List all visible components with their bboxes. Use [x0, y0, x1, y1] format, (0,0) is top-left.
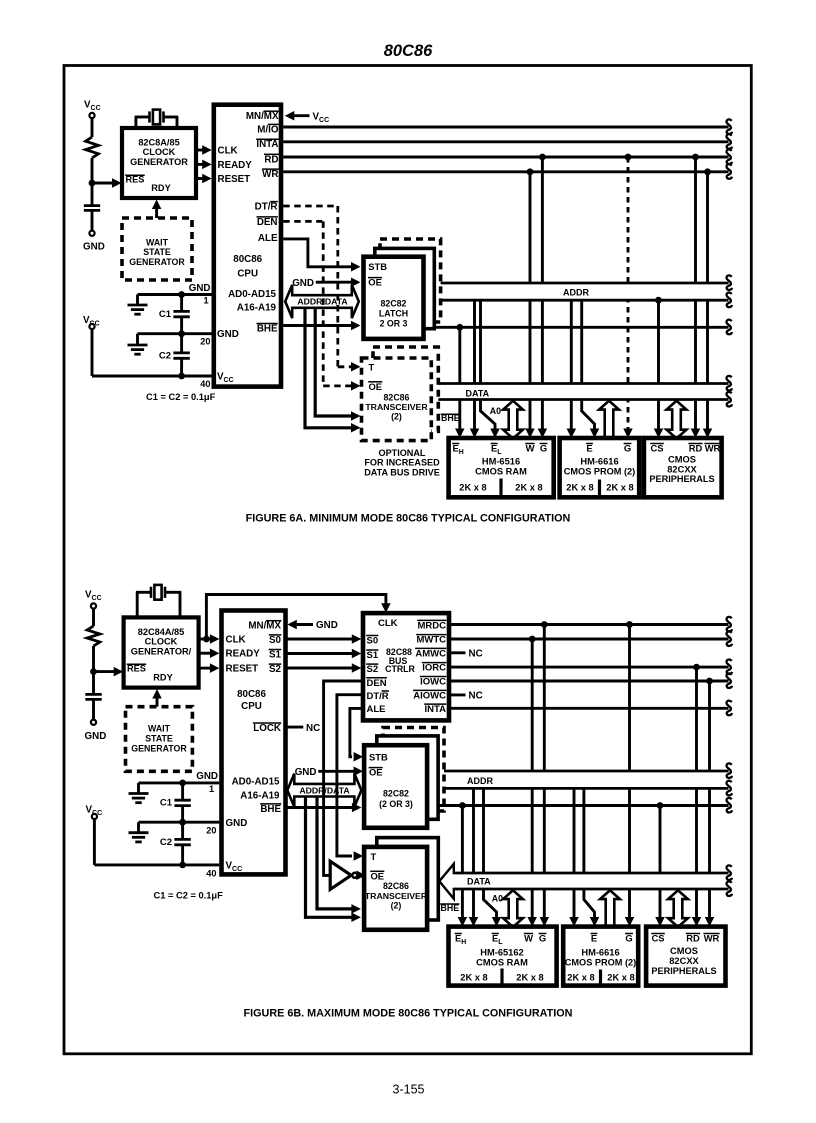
Vcc terminal 6B	[91, 603, 96, 608]
junction dot BHE drop 6B	[459, 802, 466, 809]
svg-text:STB: STB	[369, 752, 388, 763]
squiggle IORC 6B	[726, 659, 732, 674]
svg-text:DATA: DATA	[467, 876, 491, 886]
capacitor on RES rail 6A	[84, 204, 100, 207]
svg-text:80C86: 80C86	[233, 254, 262, 265]
transceiver front dashed box 6A	[362, 358, 432, 441]
latch 82C82 front box 6A	[364, 257, 424, 339]
svg-text:S1: S1	[367, 650, 379, 661]
overline for LOCK	[253, 722, 281, 724]
svg-text:LOCK: LOCK	[253, 723, 281, 734]
arrowhead A0 into RAM 6B	[492, 917, 502, 927]
wire rail C1-C2 6A	[180, 295, 183, 312]
svg-text:3-155: 3-155	[393, 1083, 425, 1097]
svg-text:GND: GND	[295, 767, 317, 778]
overline for RD	[264, 153, 279, 155]
wire A0 drop 6A	[481, 300, 496, 430]
junction dot G tap 6B	[541, 621, 548, 628]
svg-text:CMOS RAM: CMOS RAM	[476, 958, 528, 968]
junction dot pin40 rail 6B	[179, 862, 186, 869]
svg-text:ALE: ALE	[367, 704, 386, 715]
svg-text:CLK: CLK	[378, 618, 398, 629]
squiggle DATA top 6A	[726, 376, 732, 391]
svg-text:S2: S2	[269, 664, 282, 675]
arrowhead EL into RAM 6A	[470, 429, 480, 439]
svg-text:TRANSCEIVER: TRANSCEIVER	[365, 891, 428, 901]
overline for S1	[269, 649, 282, 651]
wire AD tap2 6B	[317, 797, 353, 909]
junction dot CLK branch 6B	[203, 636, 210, 643]
cpu 80C86 box 6A	[214, 105, 281, 387]
svg-text:20: 20	[200, 337, 210, 347]
svg-text:IORC: IORC	[422, 663, 446, 674]
squiggle DATA bottom 6A	[726, 392, 732, 407]
overline for G	[625, 933, 633, 935]
svg-text:FIGURE 6A. MINIMUM MODE 80C86: FIGURE 6A. MINIMUM MODE 80C86 TYPICAL CO…	[246, 513, 571, 525]
overline for MRDC	[417, 619, 446, 621]
overline for RD	[688, 443, 702, 445]
arrowhead AD tap1 6B	[351, 913, 361, 923]
bus arrow peripheral data 6A	[667, 401, 687, 439]
svg-text:82C86: 82C86	[383, 881, 409, 891]
svg-text:ADDR: ADDR	[467, 776, 493, 786]
svg-text:S1: S1	[269, 650, 282, 661]
arrowhead MN/MX 6B	[287, 620, 297, 630]
overline for OE	[369, 767, 383, 769]
svg-text:ALE: ALE	[258, 233, 278, 244]
svg-text:82C8A/85: 82C8A/85	[138, 138, 179, 148]
wire PROM G drop 6B	[628, 625, 631, 920]
svg-text:A16-A19: A16-A19	[240, 791, 280, 802]
wire pin20 6B	[183, 821, 220, 824]
bus band ADDR 6B	[444, 772, 729, 787]
squiggle MRDC 6B	[726, 617, 732, 632]
svg-text:TRANSCEIVER: TRANSCEIVER	[365, 402, 428, 412]
arrowhead AD tap2 6B	[351, 904, 361, 914]
overline for EL	[491, 443, 498, 445]
junction dot W tap 6B	[529, 636, 536, 643]
arrowhead periph WR 6B	[705, 917, 715, 927]
svg-text:DATA: DATA	[466, 388, 490, 398]
wire AIOWC NC 6B	[449, 693, 466, 696]
svg-text:40: 40	[200, 379, 210, 389]
arrowhead CLK 6B	[210, 634, 220, 644]
svg-text:C2: C2	[159, 350, 171, 361]
wire Vcc to resistor 6A	[91, 118, 94, 137]
svg-text:HM-6516: HM-6516	[482, 457, 520, 467]
svg-text:82C82: 82C82	[383, 788, 409, 798]
svg-text:NC: NC	[306, 723, 320, 734]
wire wait-state to clock 6A	[155, 207, 158, 218]
arrowhead PROM E 6B	[569, 917, 579, 927]
inverter bubble 6B	[352, 873, 357, 878]
junction dot periph RD tap 6A	[692, 154, 699, 161]
svg-text:2K x 8: 2K x 8	[515, 482, 542, 492]
junction dot pin40 rail 6A	[178, 373, 185, 380]
arrowhead into STB 6B	[354, 752, 364, 762]
wire ALE to STB 6A	[283, 239, 352, 267]
wire PROM A drop 6A	[582, 300, 595, 430]
overline for WR	[703, 933, 719, 935]
wire PROM A drop 6B	[584, 788, 595, 919]
wire G drop 6B	[543, 625, 546, 920]
GND terminal 6B	[91, 720, 96, 725]
Vcc terminal mid-left 6B	[92, 814, 97, 819]
svg-text:STB: STB	[368, 261, 387, 272]
svg-text:82C82: 82C82	[381, 298, 407, 308]
latch front box 6B	[364, 745, 427, 828]
arrowhead W into RAM 6A	[525, 429, 535, 439]
svg-text:CLOCK: CLOCK	[145, 637, 178, 647]
wire LOCK NC 6B	[286, 726, 304, 729]
svg-text:2K x 8: 2K x 8	[459, 482, 486, 492]
arrowhead into T 6A	[351, 362, 361, 372]
outer border frame	[64, 66, 751, 1054]
RAM HM-65162 box 6B	[449, 927, 557, 986]
wire MN/MX to GND 6B	[292, 623, 313, 626]
bus band ADDR 6A	[441, 284, 729, 299]
wire BHE to latch 6A	[283, 324, 352, 327]
svg-text:80C86: 80C86	[384, 42, 433, 60]
svg-text:C1: C1	[159, 309, 172, 320]
svg-text:READY: READY	[218, 160, 253, 171]
overline for RD	[686, 933, 700, 935]
overline for OE	[370, 870, 384, 872]
wait state generator box 6A	[122, 218, 192, 280]
overline for EL	[492, 933, 499, 935]
svg-text:ADDR: ADDR	[563, 288, 589, 298]
wire rail C2-pin40 6A	[180, 334, 183, 353]
arrowhead S0 6B	[352, 634, 362, 644]
wire to RES pin 6A	[92, 182, 115, 185]
svg-text:CPU: CPU	[241, 701, 262, 712]
svg-text:IOWC: IOWC	[420, 677, 446, 688]
svg-text:RESET: RESET	[218, 174, 251, 185]
arrowhead EL into RAM 6B	[469, 917, 479, 927]
arrowhead PROM A 6B	[590, 917, 600, 927]
wire CLK up and over to bus controller 6B	[206, 595, 386, 640]
wire resistor to cap 6B	[92, 646, 95, 694]
svg-text:MN/MX: MN/MX	[248, 621, 281, 632]
svg-text:CMOS PROM (2): CMOS PROM (2)	[564, 467, 635, 477]
wire S1 6B	[286, 652, 354, 655]
junction dot pin1 rail 6A	[178, 291, 185, 298]
bus arrow peripheral data 6B	[668, 890, 688, 927]
arrowhead into STB 6A	[351, 262, 361, 272]
arrowhead BHE latch 6B	[352, 803, 362, 813]
squiggle IOWC 6B	[726, 673, 732, 688]
wire DT/R dashed 6A	[283, 205, 337, 208]
squiggle ADDR top 6B	[726, 763, 732, 778]
svg-text:HM-6616: HM-6616	[581, 948, 619, 958]
svg-text:WAIT: WAIT	[148, 723, 171, 733]
wire GND to OE latch 6A	[316, 281, 353, 284]
svg-text:WAIT: WAIT	[146, 238, 169, 248]
svg-text:GND: GND	[316, 620, 338, 631]
junction dot pin20 rail 6A	[178, 330, 185, 337]
arrowhead BHE latch 6A	[351, 321, 361, 331]
wire periph WR drop 6A	[706, 172, 709, 431]
wire Vcc2 down 6A	[91, 329, 94, 376]
svg-text:CTRLR: CTRLR	[385, 664, 415, 674]
svg-text:CPU: CPU	[237, 269, 258, 280]
arrowhead PROM G 6A	[623, 429, 633, 439]
svg-text:HM-65162: HM-65162	[480, 948, 523, 958]
wire BHE drop 6B	[461, 806, 464, 920]
squiggle ADDR top 6A	[726, 275, 732, 290]
svg-text:GND: GND	[83, 242, 105, 253]
ground symbol 2 6A	[128, 344, 148, 347]
svg-text:2K x 8: 2K x 8	[606, 482, 633, 492]
svg-text:GND: GND	[292, 278, 314, 289]
overline for CS	[650, 443, 664, 445]
svg-text:RDY: RDY	[151, 183, 170, 193]
svg-text:AMWC: AMWC	[415, 648, 446, 659]
wire IOWC bus 6B	[449, 680, 729, 683]
arrowhead periph RD 6B	[692, 917, 702, 927]
overline for BHE	[257, 323, 278, 325]
wire DT/R down 6B	[337, 695, 363, 856]
wire CS drop 6A	[657, 300, 660, 430]
wire INTA bus 6A	[283, 140, 728, 143]
arrowhead G into RAM 6A	[538, 429, 548, 439]
arrowhead CS 6A	[654, 429, 664, 439]
svg-text:FOR INCREASED: FOR INCREASED	[364, 458, 440, 468]
arrowhead periph WR 6A	[703, 429, 713, 439]
overline for RES	[125, 174, 145, 176]
svg-text:PERIPHERALS: PERIPHERALS	[649, 474, 714, 484]
transceiver front box 6B	[364, 847, 427, 930]
resistor pull-up 6A	[86, 137, 99, 158]
overline for MN/MX	[264, 110, 279, 112]
svg-text:GENERATOR: GENERATOR	[129, 257, 185, 267]
PROM HM-6616 box 6B	[563, 927, 638, 986]
squiggle ADDR bottom 6B	[726, 781, 732, 796]
GND terminal 6A	[89, 231, 94, 236]
wire PROM E drop 6A	[570, 300, 573, 430]
wire MRDC bus 6B	[449, 623, 729, 626]
bus arrow PROM data 6A	[599, 401, 619, 439]
wire to ground sym1 6A	[138, 293, 182, 296]
svg-text:(2 OR 3): (2 OR 3)	[379, 799, 413, 809]
wire Vcc2 down 6B	[93, 819, 96, 865]
junction dot PROM G tap 6A	[625, 154, 632, 161]
svg-text:2K x 8: 2K x 8	[460, 972, 487, 982]
latch dashed third box 6B	[383, 728, 444, 812]
svg-text:1: 1	[203, 296, 208, 306]
wire CLK 6A	[196, 149, 204, 152]
svg-text:MN/MX: MN/MX	[246, 111, 279, 122]
wire cap to GND 6B	[92, 699, 95, 719]
arrowhead CLK 6A	[202, 145, 212, 155]
wire BHE drop 6A	[458, 327, 461, 430]
squiggle DATA bottom 6B	[726, 881, 732, 896]
svg-text:BHE: BHE	[260, 804, 281, 815]
arrowhead into 82C88 CLK 6B	[381, 603, 391, 613]
arrowhead BHE into RAM 6A	[455, 429, 465, 439]
svg-text:AD0-AD15: AD0-AD15	[228, 289, 276, 300]
svg-text:AD0-AD15: AD0-AD15	[232, 776, 280, 787]
peripherals box 6B	[646, 927, 725, 986]
wire A0 drop 6B	[484, 788, 497, 919]
wire CS drop 6B	[659, 806, 662, 920]
svg-text:GENERATOR: GENERATOR	[130, 157, 188, 167]
wire EL drop 6B	[472, 788, 475, 919]
svg-text:A16-A19: A16-A19	[237, 302, 277, 313]
svg-text:M/IO: M/IO	[257, 124, 279, 135]
svg-text:STATE: STATE	[143, 247, 171, 257]
wire G drop 6A	[541, 157, 544, 431]
wire READY 6B	[199, 652, 212, 655]
squiggle WR 6A	[726, 164, 732, 179]
overline for MN/MX	[266, 620, 281, 622]
junction dot periph WR tap 6A	[704, 168, 711, 175]
wire periph RD drop 6A	[694, 157, 697, 431]
capacitor C1 6B	[174, 799, 190, 802]
overline for S2	[269, 663, 282, 665]
bus arrow ADDR/DATA 6B	[287, 774, 361, 807]
squiggle ADDR bottom 6A	[726, 293, 732, 308]
arrowhead W into RAM 6B	[527, 917, 537, 927]
squiggle MWTC 6B	[726, 631, 732, 646]
svg-text:C1 = C2 = 0.1μF: C1 = C2 = 0.1μF	[154, 891, 224, 901]
svg-text:CLOCK: CLOCK	[143, 147, 176, 157]
svg-text:LATCH: LATCH	[379, 308, 408, 318]
crystal Y2 6B	[136, 592, 139, 619]
overline for DEN	[366, 677, 387, 679]
svg-text:2K x 8: 2K x 8	[567, 972, 594, 982]
arrowhead A0 into RAM 6A	[490, 429, 500, 439]
capacitor C2 6B	[174, 838, 190, 841]
junction dot W tap 6A	[527, 168, 534, 175]
capacitor C2 6A	[173, 351, 189, 354]
wire AMWC NC 6B	[449, 651, 466, 654]
wire pin1 6B	[183, 781, 220, 784]
squiggle M/IO 6A	[726, 119, 732, 134]
Vcc terminal 6A	[89, 113, 94, 118]
bus arrow ADDR/DATA 6A	[285, 285, 359, 318]
wire BHE to latch 6B	[286, 806, 354, 809]
wire DEN dashed 6A	[283, 220, 322, 223]
svg-text:CLK: CLK	[218, 146, 238, 157]
svg-text:S0: S0	[269, 635, 282, 646]
svg-text:T: T	[371, 851, 377, 862]
junction dot pin20 rail 6B	[179, 819, 186, 826]
arrowhead into T 6B	[354, 851, 364, 861]
junction dot CS tap 6B	[657, 802, 664, 809]
wire PROM E drop 6B	[573, 788, 576, 919]
svg-text:GENERATOR: GENERATOR	[131, 743, 187, 753]
overline for BHE	[260, 803, 281, 805]
overline for S2	[366, 663, 378, 665]
wire resistor to cap 6A	[91, 158, 94, 205]
overline for DT/R	[270, 201, 278, 203]
RAM divider 6A	[499, 479, 502, 496]
bus arrow PROM data 6B	[600, 890, 620, 927]
wire M/IO bus 6A	[283, 126, 728, 129]
svg-text:2K x 8: 2K x 8	[516, 972, 543, 982]
wire RD bus 6A	[283, 156, 728, 159]
arrowhead READY 6B	[210, 648, 220, 658]
wire periph WR drop 6B	[708, 681, 711, 919]
wire to ground sym2 6B	[139, 821, 183, 824]
junction dot PROM G tap 6B	[626, 621, 633, 628]
overline for BHE	[440, 903, 459, 905]
overline for W	[525, 443, 534, 445]
ground symbol 1 6A	[128, 304, 148, 307]
svg-text:2 OR 3: 2 OR 3	[380, 319, 408, 329]
transceiver back dashed box 6A	[373, 347, 438, 431]
svg-text:(2): (2)	[391, 901, 402, 911]
overline for CS	[651, 933, 665, 935]
resistor pull-up 6B	[87, 626, 100, 646]
bus band DATA 6B	[453, 874, 729, 888]
svg-text:WR: WR	[262, 169, 278, 180]
overline for INTA	[256, 138, 279, 140]
svg-text:CMOS PROM (2): CMOS PROM (2)	[565, 958, 636, 968]
svg-text:INTA: INTA	[425, 704, 447, 715]
overline for RES	[127, 663, 147, 665]
wire bubble to OE 6B	[358, 874, 360, 877]
wire RESET 6A	[196, 177, 204, 180]
svg-text:MRDC: MRDC	[418, 620, 447, 631]
overline for DEN	[257, 216, 278, 218]
wire DEN down 6B	[324, 681, 363, 875]
inverter triangle 6B	[330, 861, 351, 889]
wire to RES pin 6B	[94, 670, 117, 673]
svg-text:C1 = C2 = 0.1μF: C1 = C2 = 0.1μF	[146, 392, 216, 402]
overline for WR	[262, 168, 279, 170]
arrowhead AD tap2 6A	[351, 411, 361, 421]
svg-text:CLK: CLK	[226, 635, 246, 646]
wire BHE latched out 6A	[420, 326, 729, 329]
svg-text:INTA: INTA	[256, 139, 278, 150]
svg-text:82C84A/85: 82C84A/85	[138, 627, 184, 637]
wire pin1 6A	[182, 293, 212, 296]
bus controller 82C88 box 6B	[363, 613, 449, 720]
capacitor on RES rail 6B	[85, 693, 101, 696]
arrowhead into OE latch 6A	[351, 277, 361, 287]
overline for EH	[455, 933, 462, 935]
wire MWTC bus 6B	[449, 638, 729, 641]
arrowhead PROM A 6A	[590, 429, 600, 439]
arrowhead into OE latch 6B	[354, 767, 364, 777]
junction dot periph RD tap 6B	[693, 664, 700, 671]
Vcc terminal mid-left 6A	[89, 324, 94, 329]
svg-text:NC: NC	[469, 691, 483, 702]
overline for MWTC	[416, 634, 446, 636]
overline for S1	[366, 649, 378, 651]
arrowhead BHE into RAM 6B	[458, 917, 468, 927]
wire WR bus 6A	[283, 170, 728, 173]
svg-text:C2: C2	[160, 837, 172, 848]
bus arrow RAM data 6B	[503, 890, 523, 927]
wire rail C1-C2 6B	[181, 783, 184, 800]
svg-text:A0: A0	[492, 894, 503, 904]
svg-text:80C86: 80C86	[237, 689, 266, 700]
wire cap to GND 6A	[91, 210, 94, 230]
squiggle BHE out 6B	[726, 798, 732, 813]
bus arrow RAM data 6A	[503, 401, 523, 439]
svg-text:2K x 8: 2K x 8	[566, 482, 593, 492]
junction dot pin1 rail 6B	[179, 780, 186, 787]
junction dot CS tap 6A	[655, 297, 662, 304]
wire periph RD drop 6B	[695, 667, 698, 919]
wire pin20 6A	[182, 332, 212, 335]
overline for OE	[368, 381, 382, 383]
svg-text:DT/R: DT/R	[367, 691, 389, 702]
wire S0 6B	[286, 638, 354, 641]
